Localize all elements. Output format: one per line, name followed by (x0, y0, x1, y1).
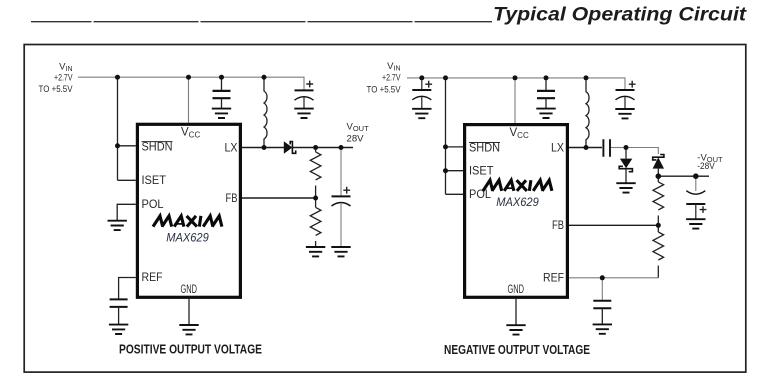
svg-text:POL: POL (469, 189, 492, 201)
svg-text:SHDN: SHDN (142, 141, 173, 153)
svg-text:+2.7V: +2.7V (54, 73, 73, 83)
svg-text:SHDN: SHDN (469, 142, 500, 154)
svg-text:+2.7V: +2.7V (382, 73, 401, 83)
svg-text:REF: REF (142, 272, 163, 284)
svg-text:Typical Operating Circuit: Typical Operating Circuit (493, 4, 747, 25)
svg-text:ISET: ISET (469, 166, 494, 178)
svg-text:FB: FB (552, 220, 564, 232)
svg-text:TO +5.5V: TO +5.5V (39, 84, 73, 94)
svg-text:NEGATIVE OUTPUT VOLTAGE: NEGATIVE OUTPUT VOLTAGE (444, 342, 590, 357)
svg-text:TO +5.5V: TO +5.5V (367, 84, 401, 94)
svg-text:GND: GND (508, 284, 525, 296)
svg-text:LX: LX (551, 142, 564, 154)
svg-text:VOUT: VOUT (347, 122, 370, 133)
svg-text:ISET: ISET (142, 175, 167, 187)
svg-text:28V: 28V (347, 133, 364, 143)
svg-text:MAX629: MAX629 (166, 233, 209, 245)
svg-text:MAX629: MAX629 (496, 197, 539, 209)
svg-text:GND: GND (181, 284, 198, 296)
svg-text:REF: REF (543, 272, 564, 284)
svg-text:LX: LX (225, 142, 238, 154)
svg-text:POL: POL (142, 199, 165, 211)
svg-text:-28V: -28V (697, 161, 715, 171)
svg-text:FB: FB (226, 193, 238, 205)
svg-text:POSITIVE OUTPUT VOLTAGE: POSITIVE OUTPUT VOLTAGE (119, 342, 262, 357)
